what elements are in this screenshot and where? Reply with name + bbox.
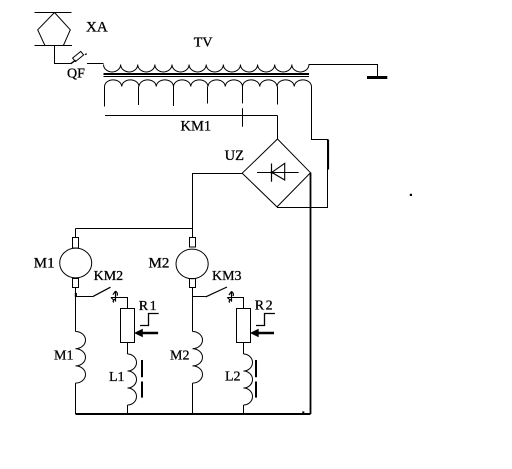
contact KM3 blade <box>206 287 227 297</box>
contact KM2 blade <box>93 287 111 297</box>
rectifier UZ diamond <box>242 139 310 207</box>
wire rail to M2 brush <box>192 229 194 238</box>
motor M2 top brush <box>190 238 196 248</box>
svg-text:XA: XA <box>86 20 108 36</box>
transformer TV primary winding <box>104 65 309 73</box>
svg-text:L2: L2 <box>225 370 241 385</box>
wire thick jog <box>327 140 329 170</box>
transformer core line thick <box>104 73 310 75</box>
inductor L2 <box>244 354 253 405</box>
rheostat R2 body <box>237 309 251 343</box>
wire KM3 to R2 <box>227 298 243 309</box>
wire plug to QF <box>55 46 71 64</box>
secondary tap 6 <box>277 87 279 105</box>
circuit breaker QF tip tick <box>85 53 87 56</box>
contact KM2 barb <box>111 298 114 300</box>
motor M1 top brush <box>73 238 79 249</box>
field winding M1 <box>76 332 86 384</box>
wire M1 brush down <box>75 288 77 332</box>
wire QF to TV <box>87 63 104 65</box>
inductor L2 core dash 1 <box>255 360 257 377</box>
secondary tap 4 <box>207 87 209 104</box>
motor M1 bottom brush <box>73 279 79 288</box>
rheostat R2 arrow head <box>250 329 259 338</box>
diode line <box>257 172 299 174</box>
wire field M1 down <box>75 383 77 414</box>
svg-text:TV: TV <box>194 36 213 51</box>
wire primary to ground <box>309 65 378 77</box>
contact KM2 stub <box>76 296 93 298</box>
plug XA pentagon <box>38 13 71 46</box>
diode triangle <box>272 163 285 180</box>
inductor L1 core dash 2 <box>141 382 143 398</box>
motor M2 bottom brush <box>190 279 196 288</box>
svg-text:KM2: KM2 <box>94 269 124 284</box>
svg-text:M1: M1 <box>34 255 55 271</box>
rheostat R2 arrow shaft <box>254 332 275 334</box>
junction blob M1 <box>75 293 77 297</box>
wire R1 to L1 <box>127 343 129 355</box>
bottom rail notch <box>302 411 304 414</box>
wire bottom rail <box>76 413 311 415</box>
secondary center tap <box>242 87 244 127</box>
secondary right end wire <box>277 87 328 208</box>
rheostat R1 body <box>121 309 135 343</box>
motor M2 armature <box>176 249 208 279</box>
secondary tap 2 <box>138 87 140 106</box>
wire bridge right output <box>310 173 312 414</box>
svg-text:M2: M2 <box>149 256 170 272</box>
rheostat R1 step symbol <box>140 314 159 326</box>
circuit breaker QF blade <box>71 60 76 64</box>
plug XA bottom bar <box>35 45 73 47</box>
circuit breaker QF chute rect <box>73 51 84 61</box>
wire KM1 line <box>105 115 278 117</box>
rheostat R1 arrow head <box>134 329 143 338</box>
plug XA top bar <box>35 12 72 14</box>
contact KM3 arrow <box>229 291 234 302</box>
svg-text:L1: L1 <box>109 370 125 385</box>
contact KM3 stub <box>193 296 206 298</box>
svg-text:R2: R2 <box>255 299 274 314</box>
ground <box>367 76 387 79</box>
diode cathode bar <box>271 164 273 182</box>
svg-text:M2: M2 <box>170 349 189 364</box>
svg-text:M1: M1 <box>54 349 73 364</box>
wire KM2 to R1 <box>111 298 128 309</box>
wire KM1 line to bridge <box>277 116 279 140</box>
transformer TV secondary winding <box>105 80 312 87</box>
field winding M2 <box>193 332 203 384</box>
diode apex dot <box>271 171 274 174</box>
wire R2 to L2 <box>243 343 245 355</box>
contact KM2 arrow <box>113 291 118 302</box>
svg-text:KM3: KM3 <box>212 269 242 284</box>
motor M1 armature <box>60 248 92 278</box>
inductor L1 core dash 1 <box>141 360 143 377</box>
wire M2 brush down <box>192 288 194 332</box>
svg-text:UZ: UZ <box>225 148 244 164</box>
dot artifact <box>410 194 412 196</box>
inductor L2 core dash 2 <box>255 382 257 398</box>
secondary tap 3 <box>173 87 175 107</box>
svg-text:R1: R1 <box>139 299 158 314</box>
secondary tap 1 <box>104 87 106 107</box>
transformer core line thin <box>104 76 310 78</box>
rheostat R1 arrow shaft <box>138 332 158 334</box>
rheostat R2 step symbol <box>256 314 275 326</box>
inductor L1 <box>128 354 137 405</box>
wire bridge left output <box>193 174 243 229</box>
contact KM3 barb <box>227 298 230 300</box>
wire top rail <box>76 228 193 230</box>
svg-text:QF: QF <box>67 67 85 82</box>
wire L2 down <box>243 405 245 414</box>
wire L1 down <box>127 405 129 414</box>
svg-text:KM1: KM1 <box>181 119 212 135</box>
wire field M2 down <box>192 383 194 414</box>
wire rail to M1 brush <box>75 229 77 238</box>
